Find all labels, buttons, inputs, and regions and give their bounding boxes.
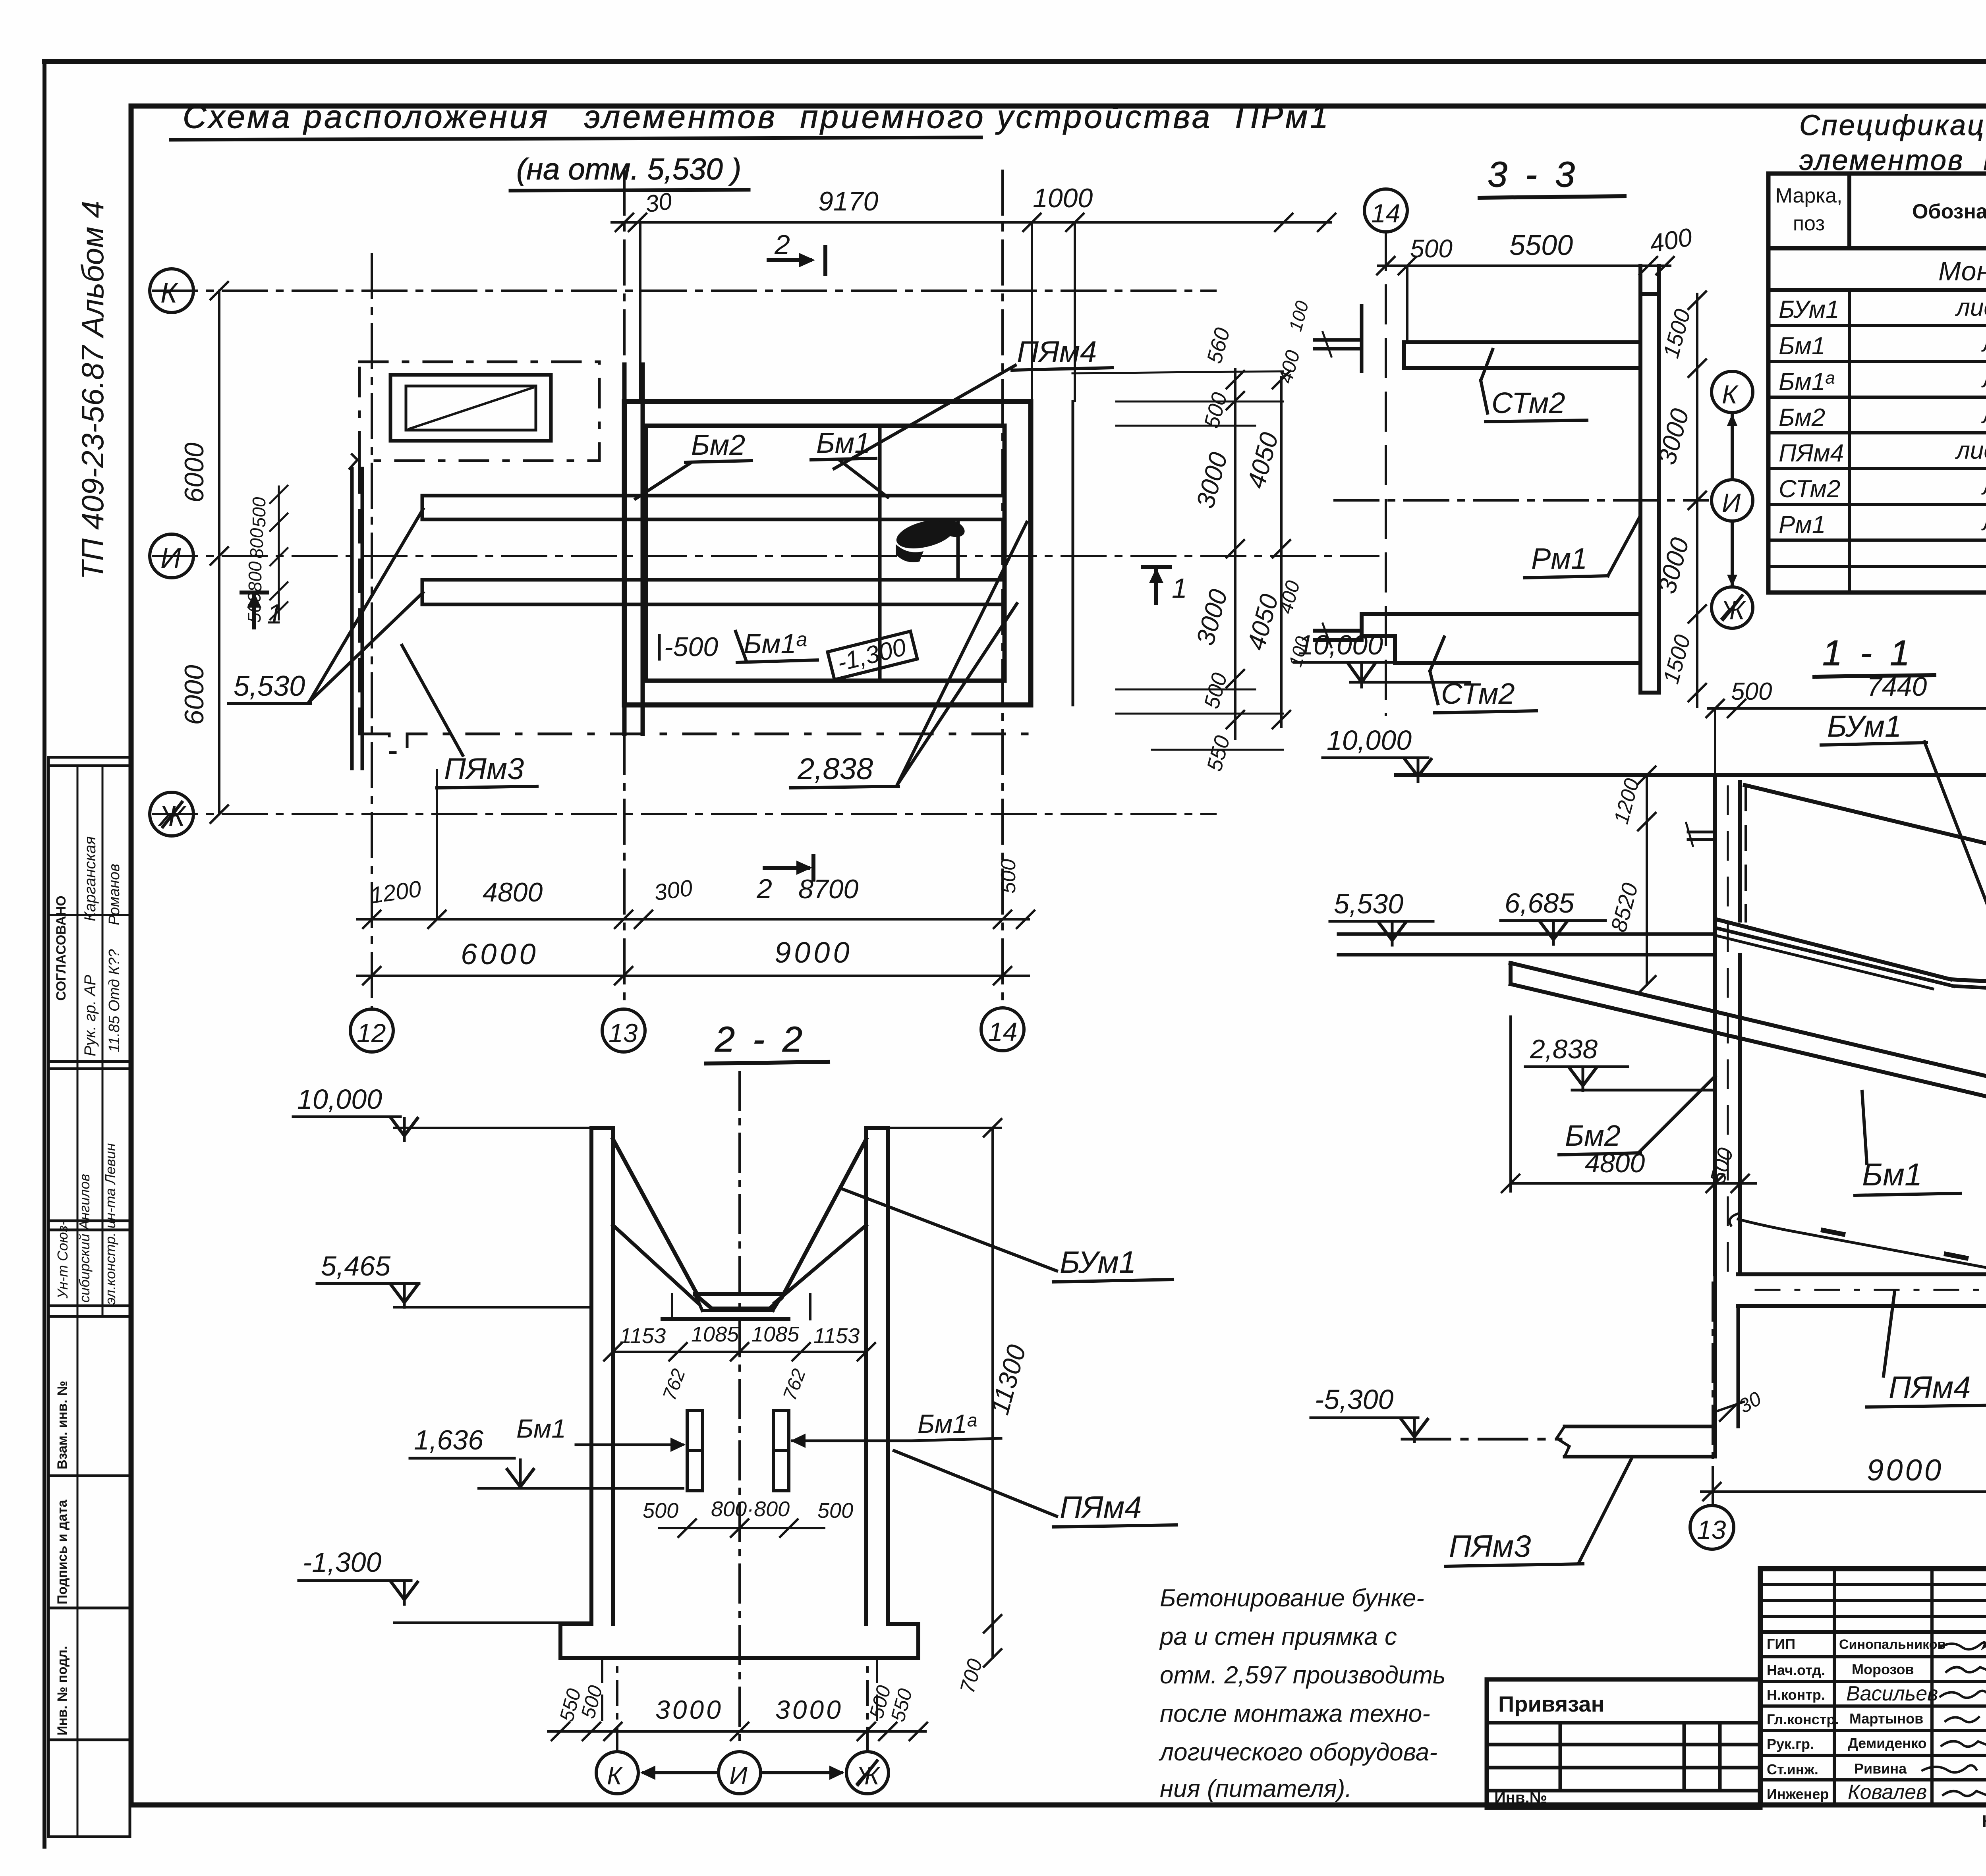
svg-text:1 - 1: 1 - 1 <box>1822 633 1914 673</box>
pit outer wall rectangle <box>624 401 1031 705</box>
section 3-3 title <box>1480 155 1625 198</box>
label PYam3 (1-1) <box>1446 1458 1632 1566</box>
2-2 axis I dashdot vertical <box>738 1072 741 1747</box>
window opening outer <box>390 375 551 441</box>
2-2 beam section Bm1a <box>773 1411 789 1491</box>
window dashed contour <box>359 362 599 461</box>
3-3 left wall stubs <box>1315 306 1362 371</box>
2-2 label Bm1 <box>516 1414 686 1452</box>
svg-text:1153: 1153 <box>620 1324 666 1348</box>
svg-text:14: 14 <box>988 1017 1017 1046</box>
svg-text:Бм1: Бм1 <box>1862 1157 1922 1192</box>
svg-text:Обозначение: Обозначение <box>1912 200 1986 223</box>
svg-text:Рук.гр.: Рук.гр. <box>1767 1736 1814 1752</box>
svg-text:К: К <box>607 1761 623 1790</box>
level 2,838 (1-1) <box>1525 1034 1715 1090</box>
label PYam4 (1-1) <box>1867 1291 1986 1407</box>
svg-text:5,465: 5,465 <box>321 1251 391 1282</box>
svg-text:10,000: 10,000 <box>1327 725 1412 756</box>
svg-text:ПЯм4: ПЯм4 <box>1017 335 1097 369</box>
axis 14 circle <box>981 1008 1024 1051</box>
2-2 label BUm1 <box>841 1189 1173 1282</box>
svg-text:И: И <box>729 1761 748 1790</box>
svg-text:логического оборудова-: логического оборудова- <box>1159 1739 1437 1766</box>
svg-text:9170: 9170 <box>818 186 878 216</box>
svg-text:800: 800 <box>246 528 267 558</box>
label PYam3 <box>402 645 537 788</box>
2-2 beam section Bm1 <box>687 1411 703 1491</box>
svg-text:Взам. инв. №: Взам. инв. № <box>55 1381 70 1469</box>
svg-text:Бм1: Бм1 <box>516 1414 566 1443</box>
2-2 footing <box>560 1624 918 1658</box>
1-1 dims 1200/8520 <box>1606 766 1656 994</box>
svg-text:500: 500 <box>249 497 269 527</box>
svg-text:ния (питателя).: ния (питателя). <box>1160 1775 1352 1803</box>
svg-text:6,685: 6,685 <box>1505 888 1575 919</box>
2-2 label PYam4 <box>894 1451 1177 1527</box>
underground dashed edge bottom <box>359 734 1033 753</box>
section mark 2 bottom <box>756 856 813 904</box>
svg-text:2: 2 <box>756 873 772 904</box>
1-1 top slab top line <box>1396 773 1986 777</box>
2-2 axis circles K I Zh <box>596 1660 889 1794</box>
svg-text:500: 500 <box>244 592 265 623</box>
small dims 500/800/800/500 near axis I <box>244 486 288 623</box>
2-2 dims 500/800 800/500 <box>643 1497 853 1537</box>
2-2 hopper mouth <box>663 1294 810 1319</box>
svg-text:-1,300: -1,300 <box>303 1547 382 1578</box>
axis 13 circle <box>602 1009 645 1052</box>
svg-text:СОГЛАСОВАНО: СОГЛАСОВАНО <box>54 896 69 1001</box>
plan right dim chain inner <box>1191 325 1244 774</box>
svg-text:Карганская: Карганская <box>81 836 99 921</box>
svg-text:5,530: 5,530 <box>234 670 305 702</box>
svg-text:Монолитные железобетонные конс: Монолитные железобетонные конструкции <box>1938 256 1986 286</box>
title block outer <box>1760 1569 1986 1805</box>
svg-text:поз: поз <box>1793 212 1825 235</box>
3-3 label STm2 top <box>1481 349 1587 422</box>
svg-text:(на отм. 5,530 ): (на отм. 5,530 ) <box>516 152 741 186</box>
2-2 dims 1153/1085/1085/1153 <box>604 1322 875 1403</box>
window glazing diagonal <box>409 388 533 429</box>
pit east outer line <box>1072 401 1074 705</box>
plan bottom dims 6000/9000 <box>357 936 1029 984</box>
2-2 dim 11300 <box>956 1119 1031 1696</box>
1-1 ramp line <box>1730 1214 1986 1271</box>
svg-text:Бм1: Бм1 <box>1779 332 1825 360</box>
ink blot <box>893 515 967 562</box>
svg-text:800: 800 <box>245 561 265 592</box>
3-3 top dim 500/5500/400 <box>1377 222 1694 342</box>
1-1 top dim 500/7440/500/1060 <box>1706 671 1986 775</box>
svg-text:-500: -500 <box>664 632 718 662</box>
svg-text:12: 12 <box>357 1018 386 1048</box>
sheet trim border top <box>44 59 1986 64</box>
svg-text:1085: 1085 <box>752 1322 800 1346</box>
wall axis 13 <box>624 365 643 734</box>
spec table grid <box>1768 174 1986 593</box>
svg-text:ПЯм4: ПЯм4 <box>1779 440 1844 467</box>
2-2 top level line right <box>888 1127 1001 1129</box>
svg-text:Инв.№: Инв.№ <box>1494 1789 1547 1807</box>
svg-text:Инв. № подл.: Инв. № подл. <box>55 1646 70 1735</box>
bunker left dashed edge <box>1745 786 1747 921</box>
section 2-2 title <box>706 1020 828 1063</box>
svg-text:4800: 4800 <box>483 877 543 907</box>
1-1 axis 13 dash <box>1727 786 1729 1271</box>
svg-text:14: 14 <box>1371 199 1400 228</box>
plan bottom dims 1200/4800/300/8700/500 <box>357 770 1034 928</box>
svg-text:500: 500 <box>1410 234 1453 263</box>
wall axis 12 <box>350 454 362 768</box>
label PYam4 (plan) <box>834 335 1112 469</box>
svg-text:БУм1: БУм1 <box>1779 296 1839 323</box>
main title <box>171 99 1331 191</box>
svg-text:И: И <box>1722 488 1741 517</box>
2-2 level 1,636 <box>410 1424 683 1488</box>
3-3 axis circles K I Zh <box>1712 371 1753 628</box>
svg-text:Привязан: Привязан <box>1498 1691 1604 1716</box>
svg-text:ра и стен приямка с: ра и стен приямка с <box>1159 1623 1397 1650</box>
svg-text:Ковалев: Ковалев <box>1848 1781 1927 1804</box>
bunker BUm1 <box>1716 785 1986 989</box>
beam Bm1a lower (plan) <box>422 580 1005 604</box>
axis I circle <box>150 534 193 578</box>
svg-text:Романов: Романов <box>106 864 123 925</box>
1-1 left wall lower part <box>1715 1274 1738 1457</box>
svg-text:-5,300: -5,300 <box>1315 1384 1394 1415</box>
label 2,838 <box>790 522 1027 788</box>
label Bm1 (plan) <box>811 427 888 497</box>
label -500 <box>659 632 718 662</box>
svg-text:30: 30 <box>643 187 673 218</box>
svg-text:Рм1: Рм1 <box>1531 542 1587 575</box>
axis K circle <box>150 269 193 313</box>
1-1 floor slab at 5,530 left <box>1339 934 1715 955</box>
beam Bm1 upper (plan) <box>422 496 1005 519</box>
left dim 6000/6000 <box>179 282 228 823</box>
svg-text:ПЯм3: ПЯм3 <box>444 752 524 786</box>
1-1 level 10,000 <box>1323 725 1431 782</box>
label Bm1a <box>736 628 817 662</box>
level -5,300 <box>1311 1384 1561 1442</box>
svg-text:3 - 3: 3 - 3 <box>1488 155 1579 195</box>
spec table title <box>1799 110 1986 176</box>
2-2 label Bm1a <box>790 1409 1001 1448</box>
level 5,530 with leaders <box>228 509 423 704</box>
svg-text:1,636: 1,636 <box>414 1424 483 1455</box>
svg-text:6000: 6000 <box>179 442 209 502</box>
svg-text:10,000: 10,000 <box>297 1084 382 1115</box>
dim 4800/500 (1-1) <box>1502 1017 1756 1192</box>
3-3 bottom slab <box>1315 614 1640 663</box>
svg-text:отм. 2,597 производить: отм. 2,597 производить <box>1160 1662 1446 1689</box>
svg-text:9000: 9000 <box>775 936 853 969</box>
svg-text:Бм2: Бм2 <box>1779 404 1825 431</box>
2-2 right wall <box>866 1128 888 1624</box>
section mark 1 right <box>1143 567 1187 604</box>
2-2 left wall <box>591 1128 613 1624</box>
1-1 dim 9000 <box>1701 1453 1986 1500</box>
svg-text:Копировал: Копировал <box>1982 1812 1986 1830</box>
svg-text:Мартынов: Мартынов <box>1849 1710 1923 1727</box>
svg-text:ПЯм4: ПЯм4 <box>1060 1490 1142 1525</box>
svg-text:8700: 8700 <box>798 874 858 904</box>
axis K line <box>153 290 1215 292</box>
3-3 label STm2 bottom <box>1430 637 1536 713</box>
svg-text:Гл.констр.: Гл.констр. <box>1767 1711 1839 1727</box>
label Bm1 (1-1) <box>1855 1091 1960 1195</box>
2-2 level 10,000 <box>293 1084 591 1141</box>
1-1 dashed floor axis <box>1756 1289 1986 1291</box>
svg-text:5500: 5500 <box>1509 230 1573 261</box>
1-1 level 5,530 <box>1330 888 1433 945</box>
svg-text:2,838: 2,838 <box>797 752 873 786</box>
top dim line 30/9170/1000 <box>612 183 1335 401</box>
title block signature grid <box>1760 1569 1986 1805</box>
1-1 axis 13 dashdot lower <box>1712 1283 1714 1505</box>
svg-text:Синопальников: Синопальников <box>1839 1637 1945 1652</box>
3-3 right dim chain <box>1652 291 1706 707</box>
svg-text:2,838: 2,838 <box>1530 1034 1598 1064</box>
svg-text:Васильев: Васильев <box>1846 1682 1938 1705</box>
svg-text:500: 500 <box>643 1499 678 1523</box>
svg-text:ПЯм3: ПЯм3 <box>1449 1529 1531 1563</box>
1-1 pit floor slab <box>1738 1274 1986 1306</box>
title block signature labels <box>1767 1636 1839 1802</box>
svg-text:2 - 2: 2 - 2 <box>715 1020 806 1060</box>
svg-text:Демиденко: Демиденко <box>1848 1735 1927 1751</box>
svg-text:листы 77,78: листы 77,78 <box>1955 294 1986 321</box>
plan right dim chain outer <box>1242 299 1313 728</box>
spec data rows <box>1779 292 1986 538</box>
svg-text:ГИП: ГИП <box>1767 1636 1795 1652</box>
section 1-1 title <box>1814 633 1934 677</box>
axis Zh line <box>153 813 1215 815</box>
svg-text:1000: 1000 <box>1033 183 1093 213</box>
beam Bm1 inclined <box>1511 963 1986 1151</box>
svg-text:800·800: 800·800 <box>711 1497 790 1521</box>
1-1 lower pit floor (-5,300) <box>1557 1426 1715 1457</box>
3-3 label Rm1 <box>1524 517 1640 578</box>
concreting note <box>1159 1585 1446 1803</box>
3-3 right wall <box>1640 266 1659 693</box>
3-3 axis I dash-dot <box>1335 499 1708 502</box>
margin boxes <box>48 757 130 1837</box>
1-1 left wall axis13 <box>1715 775 1740 1274</box>
svg-text:Нач.отд.: Нач.отд. <box>1767 1662 1825 1678</box>
svg-text:4800: 4800 <box>1585 1148 1645 1178</box>
1-1 small 30 mark <box>1715 1387 1765 1421</box>
axis 14 circle (3-3) <box>1364 189 1407 232</box>
svg-text:3000: 3000 <box>655 1695 723 1724</box>
svg-text:Бм2: Бм2 <box>1565 1119 1621 1152</box>
title block signature names <box>1839 1637 1945 1804</box>
svg-text:эл.констр. ин-та Левин: эл.констр. ин-та Левин <box>102 1143 118 1305</box>
svg-text:2: 2 <box>774 229 790 260</box>
svg-text:11.85 Отд К??: 11.85 Отд К?? <box>106 949 123 1052</box>
section mark 2 top <box>769 229 825 274</box>
svg-text:листы 69,70: листы 69,70 <box>1955 437 1986 464</box>
axis 14 line <box>1001 171 1004 1009</box>
svg-text:1085: 1085 <box>691 1322 739 1346</box>
svg-text:Бетонирование бунке-: Бетонирование бунке- <box>1160 1585 1424 1612</box>
svg-text:500: 500 <box>817 1499 853 1523</box>
2-2 level -1,300 <box>299 1547 591 1623</box>
1-1 left wall ledges <box>1686 823 1715 846</box>
svg-text:К: К <box>1722 380 1739 409</box>
svg-text:ПЯм4: ПЯм4 <box>1889 1370 1971 1405</box>
axis 12 circle <box>350 1009 393 1052</box>
margin rotated labels <box>54 836 123 1735</box>
3-3 level 10,000 <box>1294 629 1470 687</box>
svg-text:Подпись и дата: Подпись и дата <box>55 1499 70 1604</box>
svg-text:6000: 6000 <box>179 665 209 725</box>
svg-text:после монтажа техно-: после монтажа техно- <box>1160 1700 1430 1727</box>
label Bm2 (plan) <box>636 429 752 499</box>
svg-text:Рук. гр. АР: Рук. гр. АР <box>81 975 99 1056</box>
3-3 top slab <box>1404 342 1640 368</box>
axis 13 line <box>623 171 626 1009</box>
svg-text:1: 1 <box>1172 573 1187 604</box>
svg-text:Морозов: Морозов <box>1852 1661 1914 1677</box>
2-2 hopper funnel inner <box>613 1225 866 1303</box>
svg-text:БУм1: БУм1 <box>1060 1245 1136 1280</box>
svg-text:СТм2: СТм2 <box>1491 386 1565 419</box>
svg-text:Ривина: Ривина <box>1854 1760 1907 1777</box>
bunker label BUm1 <box>1821 710 1986 909</box>
2-2 level 5,465 <box>317 1251 591 1307</box>
svg-text:6000: 6000 <box>461 938 539 971</box>
section mark 1 left <box>241 593 282 629</box>
spec header texts <box>1775 180 1986 243</box>
svg-text:13: 13 <box>1697 1515 1726 1544</box>
svg-text:3000: 3000 <box>775 1695 843 1724</box>
svg-text:СТм2: СТм2 <box>1779 475 1841 503</box>
svg-text:500: 500 <box>1731 678 1772 705</box>
window opening inner <box>406 386 536 430</box>
svg-text:Бм2: Бм2 <box>691 429 745 461</box>
svg-text:Ун-т Союз-: Ун-т Союз- <box>54 1221 71 1299</box>
2-2 hopper funnel outer <box>613 1139 866 1309</box>
svg-text:Н.контр.: Н.контр. <box>1767 1687 1825 1703</box>
svg-text:7440: 7440 <box>1867 672 1927 702</box>
svg-text:1153: 1153 <box>813 1324 860 1348</box>
1-1 level 6,685 <box>1501 888 1605 944</box>
2-2 bottom dims 550/500/3000/3000/500/550 <box>548 1658 927 1740</box>
svg-text:Инженер: Инженер <box>1767 1786 1829 1802</box>
svg-text:13: 13 <box>609 1018 638 1048</box>
svg-text:К: К <box>160 277 179 309</box>
1-1 circle 13 <box>1690 1505 1734 1549</box>
bunker opening divider lines <box>880 426 958 681</box>
underground dashed edge left <box>358 461 361 734</box>
svg-text:10,000: 10,000 <box>1298 629 1383 660</box>
privyazan table <box>1487 1679 1760 1808</box>
svg-text:Марка,: Марка, <box>1775 184 1843 207</box>
svg-text:300: 300 <box>653 875 694 906</box>
svg-text:Схема расположения элементов: Схема расположения элементов приемного у… <box>183 99 1331 135</box>
pit inner wall rectangle <box>646 426 1005 681</box>
plan right witness lines <box>1072 371 1283 750</box>
axis 12 line <box>371 254 373 1009</box>
axis Zh circle <box>150 792 193 836</box>
axis 14 dash line (3-3) <box>1385 232 1387 715</box>
svg-text:Бм1: Бм1 <box>816 427 870 459</box>
svg-text:9000: 9000 <box>1867 1453 1943 1487</box>
label -1,300 slanted box <box>827 631 917 680</box>
svg-text:И: И <box>160 542 181 574</box>
svg-text:сибирский Ангилов: сибирский Ангилов <box>76 1174 93 1303</box>
axis I line <box>153 555 1378 557</box>
svg-text:500: 500 <box>997 859 1020 894</box>
svg-text:Спецификация к схеме расположе: Спецификация к схеме расположения <box>1799 110 1986 141</box>
title block signatures squiggles <box>1922 1642 1986 1796</box>
svg-text:Рм1: Рм1 <box>1779 511 1826 538</box>
svg-text:БУм1: БУм1 <box>1827 710 1901 743</box>
svg-text:Ст.инж.: Ст.инж. <box>1767 1761 1818 1778</box>
svg-text:ТП 409-23-56.87 Альбом 4: ТП 409-23-56.87 Альбом 4 <box>75 201 110 580</box>
label Bm2 (1-1) <box>1559 1076 1715 1155</box>
sheet trim border left <box>43 62 46 1847</box>
svg-text:5,530: 5,530 <box>1334 888 1403 919</box>
